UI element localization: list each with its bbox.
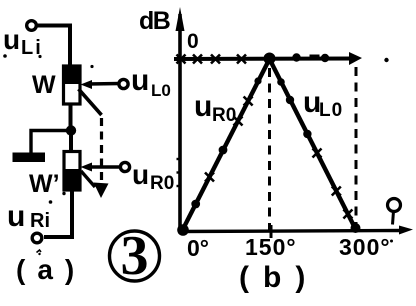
- node junction: [66, 125, 76, 135]
- y-axis tick: [177, 158, 182, 160]
- wire junction to ground: [31, 131, 71, 154]
- potentiometer W: [64, 66, 81, 104]
- svg-text:dB: dB: [139, 7, 170, 35]
- wiper arrow W' (from u_R0): [88, 165, 121, 169]
- svg-text:u: u: [194, 90, 212, 123]
- terminal u_Li: [27, 21, 37, 31]
- svg-text:R0: R0: [212, 105, 236, 126]
- svg-text:0: 0: [187, 30, 199, 53]
- scan speck: [38, 55, 41, 58]
- svg-text:u: u: [7, 200, 25, 233]
- svg-text:L0: L0: [151, 81, 171, 100]
- y-axis tick: [177, 171, 182, 173]
- scan speck: [37, 250, 42, 253]
- wire W' to u_Ri terminal: [44, 190, 72, 237]
- scan speck: [90, 65, 93, 68]
- markers on u_R0 curve: [205, 97, 253, 182]
- scan speck: [62, 192, 65, 195]
- marker dots on 0dB line: [292, 53, 300, 61]
- svg-text:L0: L0: [319, 100, 343, 121]
- svg-text:W: W: [32, 71, 56, 99]
- 0 dB flat response line: [174, 57, 356, 62]
- wire u_Li to W: [38, 26, 71, 67]
- marker x on 0dB line: [177, 55, 247, 64]
- wiper arrow W (from u_L0): [88, 82, 120, 86]
- terminal u_L0: [119, 79, 128, 88]
- svg-text:3: 3: [121, 225, 149, 287]
- svg-text:R0: R0: [150, 173, 174, 194]
- svg-text:300°: 300°: [339, 234, 391, 260]
- wire W to junction: [69, 104, 73, 132]
- right end marker of 0dB line: [349, 52, 362, 65]
- svg-text:150°: 150°: [245, 234, 297, 260]
- terminal u_R0: [120, 162, 129, 171]
- svg-text:W’: W’: [29, 170, 60, 198]
- peak node: [264, 53, 276, 65]
- terminal u_Ri: [32, 233, 42, 243]
- svg-text:(a): (a): [16, 254, 86, 285]
- scan speck: [390, 240, 393, 243]
- tick at 150 deg: [270, 225, 273, 238]
- node at 300 deg: [351, 223, 361, 233]
- dashed guide at 150 deg: [268, 68, 271, 230]
- markers on u_L0 curve: [313, 149, 353, 219]
- svg-text:(b): (b): [239, 261, 319, 294]
- curve u_R0 (left slant): [182, 59, 270, 231]
- wiper slant W': [81, 171, 95, 187]
- scan speck: [3, 54, 7, 58]
- svg-text:0°: 0°: [187, 235, 209, 261]
- svg-text:u: u: [132, 159, 149, 190]
- ground: [13, 153, 46, 163]
- figure number 3 (circled): [110, 231, 160, 281]
- curve u_L0 (right slant): [270, 59, 356, 229]
- x-axis phi: [178, 231, 404, 232]
- label phi: [388, 199, 401, 212]
- y-axis dB: [178, 14, 182, 231]
- scan speck: [49, 200, 53, 204]
- potentiometer W': [64, 152, 80, 191]
- origin node: [177, 224, 189, 236]
- scan speck: [384, 58, 388, 62]
- svg-text:u: u: [3, 24, 20, 55]
- svg-text:u: u: [131, 64, 149, 97]
- wire junction to W': [69, 131, 73, 153]
- svg-text:Ri: Ri: [30, 210, 50, 232]
- dashed guide at 300 deg: [355, 67, 358, 228]
- y-axis tick: [177, 185, 182, 187]
- marker dash on 0dB line: [310, 55, 320, 61]
- mechanical coupling link (dashed): [79, 89, 102, 115]
- scan speck: [38, 253, 40, 255]
